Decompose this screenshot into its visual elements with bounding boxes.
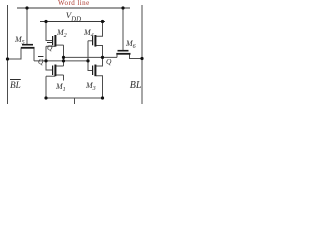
- wire M1 drain stub: [63, 75, 65, 81]
- label VDD: [66, 11, 81, 24]
- junction Q wire / M4 drain: [101, 56, 104, 59]
- wire left gate column lower: [46, 61, 52, 70]
- junction VDD / M4 source: [101, 20, 104, 23]
- label M3: [86, 82, 96, 92]
- label M1: [56, 83, 66, 93]
- label M2: [57, 29, 67, 39]
- transistor M1 gate bar: [52, 66, 54, 76]
- bitline BLbar left: [7, 5, 9, 104]
- label Qbar lower: [38, 58, 43, 66]
- junction ground rail left: [44, 96, 47, 99]
- wire M4 gate lead: [88, 40, 92, 42]
- wire M5 right lead: [33, 48, 35, 61]
- transistor M5 gate bar: [22, 44, 33, 46]
- wire M3 source: [96, 76, 103, 98]
- junction word line / M5 gate: [25, 6, 28, 9]
- bitline BL right: [141, 5, 143, 104]
- junction Q wire / left output: [62, 56, 65, 59]
- label Q: [106, 58, 111, 66]
- junction BL / M6: [140, 57, 143, 60]
- transistor M2 channel bar: [54, 35, 56, 47]
- wire left gate column upper: [46, 22, 52, 41]
- wire M1 drain stub right: [56, 74, 64, 76]
- word line: [17, 7, 130, 9]
- wire M1 source stub left: [46, 75, 55, 77]
- wire M2 drain stub right: [56, 44, 64, 46]
- ground stub: [74, 98, 76, 104]
- label M4: [84, 29, 94, 39]
- wire M5 left lead: [8, 48, 22, 59]
- label M6: [126, 40, 136, 50]
- transistor M3 gate bar: [92, 66, 94, 76]
- label Word line: [58, 0, 90, 7]
- wire M4 drain: [96, 46, 103, 67]
- junction BLbar / M5: [6, 57, 9, 60]
- transistor M1 channel bar: [54, 65, 56, 77]
- junction Qbar wire / left column: [44, 59, 47, 62]
- ground rail: [46, 97, 104, 99]
- wire M6 left lead: [116, 54, 118, 57]
- VDD rail: [40, 21, 105, 23]
- transistor M2 gate bar: [52, 36, 54, 45]
- wire left output column: [63, 45, 65, 66]
- transistor M5 channel bar: [21, 47, 35, 49]
- junction ground rail right: [101, 96, 104, 99]
- wire M6 right lead: [130, 54, 143, 58]
- junction word line / M6 gate: [121, 6, 124, 9]
- transistor M6 channel bar: [116, 53, 130, 55]
- wire left column to Qbar: [45, 46, 47, 61]
- wire M4 source: [96, 22, 103, 37]
- label M5: [15, 36, 25, 46]
- junction VDD / left column: [44, 20, 47, 23]
- wire M6 gate: [122, 8, 124, 50]
- wire M1 source: [45, 76, 47, 98]
- label BLbar: [10, 81, 21, 90]
- wire M5 gate: [26, 8, 28, 44]
- transistor M4 channel bar: [94, 35, 96, 47]
- label Qbar upper: [47, 44, 52, 52]
- label BL: [130, 81, 142, 91]
- transistor M4 gate bar: [92, 36, 94, 45]
- transistor M6 gate bar: [118, 50, 129, 52]
- junction Qbar wire / right gate column: [86, 59, 89, 62]
- wire M1 drain stub top: [56, 65, 64, 67]
- wire Qbar cross: [34, 60, 88, 62]
- junction Qbar wire / left output: [62, 59, 65, 62]
- wire right gate column: [88, 41, 92, 71]
- transistor M3 channel bar: [94, 65, 96, 77]
- wire Q cross: [64, 56, 118, 58]
- wire M2 source stub left: [46, 45, 55, 47]
